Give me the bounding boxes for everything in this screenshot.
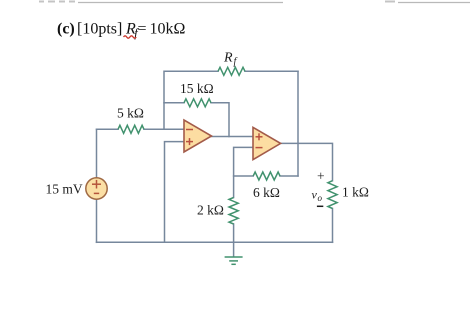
- svg-text:f: f: [234, 57, 238, 68]
- svg-text:(c): (c): [57, 21, 75, 38]
- svg-text:[10pts]: [10pts]: [77, 21, 122, 38]
- svg-text:1 kΩ: 1 kΩ: [342, 185, 369, 200]
- svg-text:15 kΩ: 15 kΩ: [180, 81, 214, 96]
- svg-text:R: R: [223, 51, 233, 66]
- svg-text:=: =: [138, 21, 147, 38]
- svg-text:o: o: [318, 193, 323, 203]
- svg-text:10kΩ: 10kΩ: [150, 21, 186, 38]
- svg-text:6 kΩ: 6 kΩ: [253, 185, 280, 200]
- svg-text:2 kΩ: 2 kΩ: [197, 203, 224, 218]
- svg-text:15 mV: 15 mV: [46, 182, 83, 197]
- svg-text:+: +: [317, 169, 325, 184]
- svg-text:5 kΩ: 5 kΩ: [117, 106, 144, 121]
